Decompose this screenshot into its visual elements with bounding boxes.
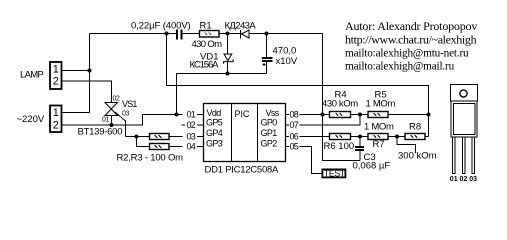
wire top rail segment d (249, 33, 323, 35)
capacitor C1 0,22uF plates (176, 30, 178, 40)
node dot at cap left (165, 32, 169, 36)
node dot R2/R3 branch (135, 135, 139, 139)
zener VD1 bar (224, 59, 234, 63)
svg-text:GP0: GP0 (261, 118, 278, 128)
wire Vss vertical x=322 (323, 34, 361, 161)
connector X1 LAMP box (50, 62, 62, 89)
pin 07 tick (286, 124, 290, 126)
resistor R2 box (150, 134, 170, 140)
zener VD1 top lead (227, 34, 229, 55)
zener VD1 bottom lead (227, 62, 229, 74)
node dot LAMP pin1 junction (88, 69, 92, 73)
svg-text:300 kOm: 300 kOm (398, 151, 437, 162)
TO-220 tab (451, 85, 478, 102)
svg-text:1 MOm: 1 MOm (366, 99, 396, 110)
IC DD1 divider 1 (231, 104, 233, 162)
resistor R6 hatch (336, 135, 343, 138)
resistor R3 box (150, 144, 170, 150)
node dot at zener top (226, 32, 230, 36)
node dot triac bottom (110, 123, 114, 127)
wire triac bottom lead (111, 116, 113, 126)
wire R2 to pin 03 (169, 136, 183, 138)
TO-220 body inner (454, 104, 476, 135)
pin 04 tick (197, 146, 204, 148)
wire VCC rail A (177, 73, 267, 75)
svg-text:04: 04 (187, 142, 196, 152)
node dot at electrolytic top (265, 32, 269, 36)
pin 01 tick (197, 114, 204, 116)
resistor R5 box (368, 112, 388, 118)
svg-text:0,22µF (400V): 0,22µF (400V) (131, 21, 191, 32)
svg-text:06: 06 (290, 132, 299, 142)
node dot R5 right (427, 113, 431, 117)
wire top rail segment c (219, 33, 241, 35)
svg-text:08: 08 (290, 110, 299, 120)
svg-text:PIC: PIC (235, 109, 251, 119)
svg-text:VS1: VS1 (122, 99, 137, 109)
svg-text:http://www.chat.ru/~alexhigh: http://www.chat.ru/~alexhigh (345, 33, 477, 47)
svg-text:02: 02 (113, 96, 120, 103)
svg-text:GP3: GP3 (206, 139, 223, 149)
svg-text:01: 01 (102, 117, 109, 124)
wire pin 05 to TEST (300, 147, 322, 174)
triac VS1 lower triangle (105, 109, 118, 116)
svg-text:1: 1 (53, 107, 59, 119)
resistor R8 hatch (411, 135, 418, 138)
pin 02 tick (197, 124, 204, 126)
svg-text:Vdd: Vdd (207, 108, 222, 118)
svg-text:R7: R7 (373, 139, 385, 150)
svg-text:TEST: TEST (324, 169, 346, 179)
wire R4 to R5 (351, 114, 369, 116)
svg-text:GP1: GP1 (261, 128, 278, 138)
node dot R6/R7/C3 junction (358, 135, 362, 139)
wire R6 to R7 (351, 136, 369, 138)
electrolytic C2 top lead (266, 34, 268, 58)
resistor R5 hatch (374, 113, 381, 116)
TO-220 leg 1 (453, 137, 456, 174)
pin 06 tick (286, 136, 290, 138)
wire top rail segment a (90, 33, 177, 35)
svg-text:x10V: x10V (276, 56, 298, 67)
svg-text:R2,R3 - 100 Om: R2,R3 - 100 Om (117, 153, 184, 164)
svg-text:КС156А: КС156А (190, 60, 220, 71)
svg-text:Vss: Vss (266, 108, 280, 118)
triac VS1 upper triangle (105, 103, 118, 110)
node dot Vss vertical (321, 113, 325, 117)
resistor R7 box (368, 134, 388, 140)
capacitor C3 top lead (359, 137, 361, 147)
IC DD1 divider 2 (257, 104, 259, 162)
pin 05 tick (286, 146, 290, 148)
wire R7 to R8 (388, 136, 405, 138)
node dot R4/R5 junction (358, 113, 362, 117)
wire pin 08 to R4 (300, 114, 330, 116)
resistor R8 box (405, 134, 425, 140)
svg-text:Autor: Alexandr Protopopov: Autor: Alexandr Protopopov (345, 19, 477, 33)
wire gate row to R2 (126, 136, 150, 138)
svg-text:КД243А: КД243А (225, 21, 257, 32)
svg-text:05: 05 (290, 142, 299, 152)
svg-text:GP2: GP2 (261, 139, 278, 149)
resistor R6 box (330, 134, 351, 140)
svg-text:DD1 PIC12C508A: DD1 PIC12C508A (205, 165, 280, 176)
svg-text:1: 1 (53, 63, 59, 75)
svg-text:LAMP: LAMP (20, 70, 43, 81)
TO-220 body outer (451, 101, 477, 137)
svg-text:R8: R8 (409, 122, 421, 133)
TO-220 hole (460, 90, 467, 97)
wire branch down to R3 row (137, 137, 150, 147)
svg-text:07: 07 (290, 120, 299, 130)
wire LAMP pin1 (62, 70, 90, 72)
resistor R1 box (200, 31, 220, 38)
svg-text:01 02 03: 01 02 03 (450, 176, 477, 183)
wire pin 01 (143, 114, 183, 116)
electrolytic C2 plus sign (263, 63, 266, 66)
wire line B mains sense (167, 34, 429, 137)
svg-text:430 Om: 430 Om (192, 39, 223, 50)
svg-text:430 kOm: 430 kOm (322, 99, 358, 110)
wire triac gate (115, 112, 126, 137)
svg-text:2: 2 (53, 120, 59, 132)
resistor R1 hatch (205, 33, 212, 36)
wire R8 right lead (425, 136, 429, 138)
svg-text:BT139-600: BT139-600 (78, 127, 123, 138)
wire stub under R8 (397, 137, 416, 154)
connector X2 ~220V box (50, 106, 62, 133)
node dot zener bottom (226, 72, 230, 76)
resistor R4 hatch (336, 113, 343, 116)
wire R3 to pin 04 (169, 146, 183, 148)
wire ~220V pin1 (62, 112, 90, 114)
wire LAMP pin2 to triac top (62, 81, 112, 103)
diode VD2 KD243A triangle (242, 30, 250, 38)
svg-text:01: 01 (187, 110, 196, 120)
svg-text:470,0: 470,0 (273, 46, 297, 57)
TO-220 leg 3 (472, 137, 475, 174)
capacitor C3 plates (355, 146, 364, 148)
svg-text:03: 03 (187, 132, 196, 142)
svg-text:~220V: ~220V (17, 114, 45, 125)
svg-text:R1: R1 (200, 21, 212, 32)
resistor R3 hatch (155, 145, 162, 148)
svg-text:2: 2 (53, 75, 59, 87)
TO-220 leg 2 (463, 137, 466, 174)
pin 02 dash (182, 124, 186, 126)
pin 03 tick (197, 136, 204, 138)
wire ~220V pin2 / triac A1 row (62, 115, 143, 126)
wire left vertical from top rail to ~220V pin1 (89, 34, 91, 113)
zener VD1 triangle (224, 54, 232, 61)
wire pin 07 to R4/R5 junction (300, 115, 361, 126)
node dot Vdd junction (175, 113, 179, 117)
wire rail A down to pin 01 (176, 74, 178, 115)
electrolytic C2 bottom lead (266, 62, 268, 74)
IC DD1 box (204, 104, 286, 162)
TEST box (322, 169, 345, 177)
wire pin 06 to R6 (300, 136, 330, 138)
svg-text:R6 100: R6 100 (324, 141, 355, 152)
capacitor C3 bottom lead (359, 151, 361, 161)
svg-text:GP4: GP4 (206, 128, 223, 138)
electrolytic C2 plates (262, 57, 273, 59)
resistor R7 hatch (374, 135, 381, 138)
svg-text:0,068 µF: 0,068 µF (353, 161, 391, 172)
node dot R7/R8 junction (395, 135, 399, 139)
wire top rail segment b (183, 33, 200, 35)
wire R5 to line B vertical (388, 114, 429, 116)
svg-text:1 MOm: 1 MOm (364, 122, 394, 133)
svg-text:mailto:alexhigh@mail.ru: mailto:alexhigh@mail.ru (345, 61, 455, 73)
resistor R2 hatch (155, 135, 162, 138)
svg-text:03: 03 (122, 111, 129, 118)
diode VD2 KD243A cathode bar (240, 30, 242, 39)
resistor R4 box (330, 112, 351, 118)
svg-text:02: 02 (187, 120, 196, 130)
pin 08 tick (286, 114, 290, 116)
svg-text:GP5: GP5 (206, 118, 223, 128)
svg-text:mailto:alexhigh@mtu-net.ru: mailto:alexhigh@mtu-net.ru (345, 48, 469, 60)
